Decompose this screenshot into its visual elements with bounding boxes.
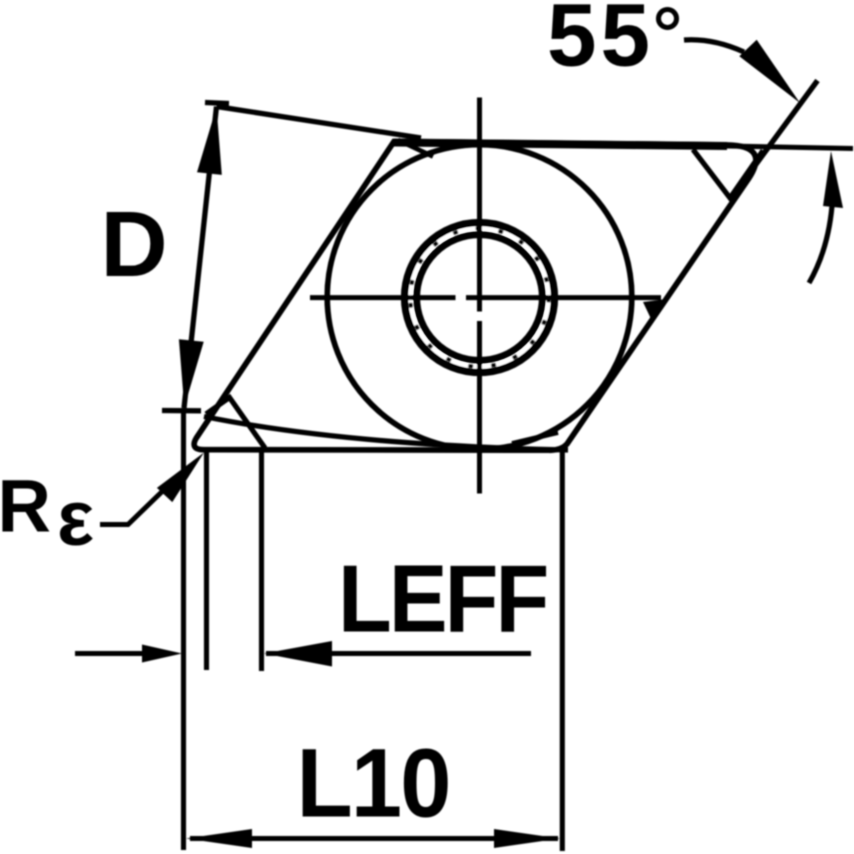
R-epsilon leader line [100, 481, 173, 525]
D bottom arrowhead [179, 339, 204, 407]
inscribed circle [327, 145, 632, 450]
slanted extension line a (top-left) [217, 107, 422, 139]
55deg arc [684, 40, 744, 52]
top edge thick overlay [394, 143, 727, 147]
D bottom tick [162, 408, 201, 414]
D top tick [205, 103, 229, 104]
vertical centerline lower [477, 321, 482, 494]
extension line x=261 [259, 451, 264, 671]
insert outline (55-deg rhombic insert body) [194, 142, 756, 451]
horizontal extension line for 55deg angle [727, 146, 853, 149]
right edge extension above corner [737, 81, 818, 191]
flag triangle at centerline right end [643, 300, 663, 322]
extension line x=206 [204, 452, 209, 670]
degree sign [659, 10, 677, 28]
horizontal centerline right [466, 295, 661, 300]
svg-text:LEFF: LEFF [338, 545, 546, 652]
L10 dimension line [190, 836, 558, 841]
corner V mark top-right [693, 150, 763, 199]
center hole outer ring [405, 223, 555, 373]
corner V mark bottom-left [206, 398, 265, 449]
D dimension line [184, 107, 217, 409]
L10 left arrowhead [186, 829, 252, 848]
right small arc arrowhead [823, 151, 843, 208]
facet line at bottom-right obtuse corner [512, 433, 558, 444]
svg-text:55: 55 [547, 0, 654, 85]
small dim left outside line [75, 651, 147, 656]
small dim right-pointing arrowhead [142, 645, 182, 663]
black bridges across gap ring [410, 228, 548, 366]
facet line at top-left obtuse corner [398, 140, 433, 157]
extension line x=563 (right, full height) [560, 452, 565, 851]
extension line x=184 (left, full height) [181, 411, 186, 850]
L10 right arrowhead [494, 829, 560, 848]
svg-text:ε: ε [57, 474, 94, 562]
right small arc [809, 206, 832, 283]
svg-text:L10: L10 [297, 729, 450, 838]
R-epsilon arrowhead [157, 453, 204, 503]
vertical centerline upper [477, 98, 482, 312]
svg-text:R: R [0, 465, 51, 548]
LEFF dimension line [266, 651, 531, 656]
white gap ring in hole [410, 228, 548, 366]
55deg arc arrowhead [739, 40, 800, 103]
horizontal centerline left [310, 295, 456, 300]
D top arrowhead [197, 107, 222, 175]
center hole inner ring [417, 235, 543, 361]
LEFF left-pointing arrowhead [264, 641, 332, 667]
slanted tangent line b (bottom) [204, 417, 568, 451]
svg-text:D: D [101, 192, 168, 296]
